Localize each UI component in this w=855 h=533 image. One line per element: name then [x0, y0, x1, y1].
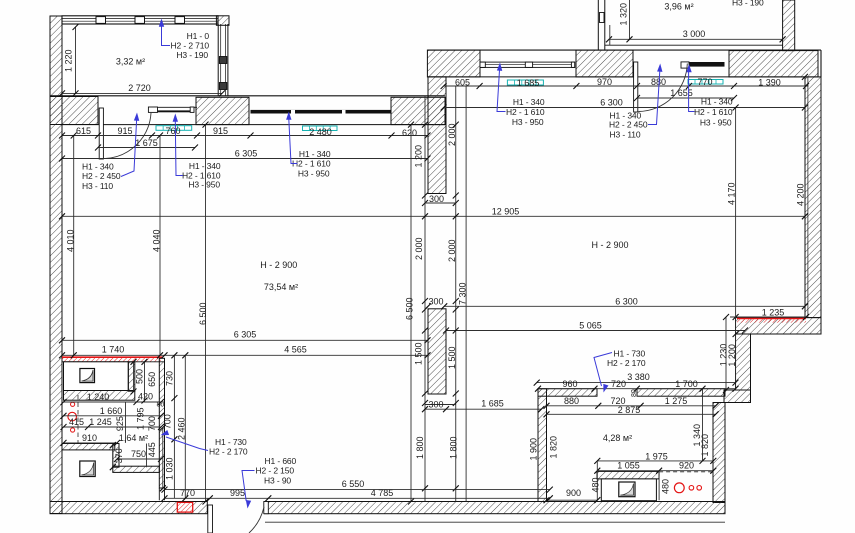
- top wall outer face line: [50, 95, 445, 97]
- svg-text:1 320: 1 320: [619, 3, 629, 26]
- kitchen top wall right segment: [637, 389, 725, 397]
- window 2 480: [251, 110, 392, 114]
- right side vertical dims: [735, 108, 737, 391]
- svg-text:1 235: 1 235: [762, 308, 785, 318]
- svg-text:910: 910: [82, 433, 97, 443]
- svg-text:7 300: 7 300: [457, 282, 467, 305]
- dim 6 305 bottom: [62, 339, 428, 341]
- svg-text:605: 605: [455, 77, 470, 87]
- demolition red strip left: [62, 356, 163, 358]
- svg-text:1 660: 1 660: [100, 406, 123, 416]
- center column dim lines: [424, 96, 426, 502]
- svg-text:415: 415: [69, 417, 84, 427]
- kitchen sink symbol: [619, 482, 635, 497]
- svg-text:700: 700: [163, 414, 173, 429]
- svg-text:1 675: 1 675: [135, 138, 158, 148]
- svg-text:80: 80: [631, 389, 638, 397]
- svg-text:620: 620: [402, 128, 417, 138]
- svg-text:1,64 м²: 1,64 м²: [119, 433, 148, 443]
- balcony 3,32 glazing band: [62, 16, 218, 24]
- svg-text:H2 - 2 450: H2 - 2 450: [82, 171, 121, 181]
- window 1 685: [480, 62, 575, 67]
- balcony 3,96 right wall: [783, 0, 795, 51]
- svg-text:300: 300: [428, 297, 443, 307]
- svg-text:1 200: 1 200: [727, 344, 737, 367]
- svg-text:1 390: 1 390: [758, 77, 781, 87]
- svg-text:925: 925: [115, 416, 125, 431]
- svg-text:1 245: 1 245: [89, 417, 112, 427]
- dim 6 305 top: [62, 158, 428, 160]
- WC bottom wall: [64, 391, 135, 401]
- svg-text:6 300: 6 300: [615, 296, 638, 306]
- svg-text:1 200: 1 200: [414, 145, 424, 168]
- step corner block: [724, 390, 751, 403]
- svg-text:300: 300: [429, 194, 444, 204]
- svg-text:1 500: 1 500: [413, 342, 423, 365]
- dim 1 685 / 300 bottom: [425, 408, 541, 410]
- svg-text:500: 500: [134, 369, 144, 384]
- svg-text:445: 445: [147, 442, 157, 457]
- svg-text:1 795: 1 795: [136, 407, 146, 430]
- svg-text:H2 - 2 450: H2 - 2 450: [609, 120, 648, 130]
- svg-text:3,96 м²: 3,96 м²: [664, 2, 693, 12]
- dim 6 300 lower: [444, 305, 805, 307]
- balcony 3,32 right glazed wall: [217, 24, 219, 96]
- svg-text:1 275: 1 275: [665, 396, 688, 406]
- dim 3 000 balcony: [609, 38, 783, 40]
- svg-text:3 380: 3 380: [627, 372, 650, 382]
- red plumbing risers: [71, 402, 75, 406]
- svg-text:4 565: 4 565: [284, 345, 307, 355]
- entrance door jamb: [264, 502, 269, 514]
- svg-text:2 720: 2 720: [128, 83, 151, 93]
- center wall stub B: [428, 309, 446, 394]
- svg-text:4 785: 4 785: [371, 488, 394, 498]
- top wall block left: [50, 97, 98, 125]
- center wall stub A: [428, 77, 446, 194]
- shaft wall (corridor side): [159, 358, 164, 488]
- teal marker window 760: [156, 126, 192, 131]
- right top wall block C: [729, 51, 818, 77]
- svg-text:H2 - 1 610: H2 - 1 610: [292, 159, 331, 169]
- top wall pier between windows: [196, 97, 249, 124]
- svg-text:H3 - 110: H3 - 110: [610, 130, 641, 140]
- svg-text:1 220: 1 220: [64, 49, 74, 72]
- kitchen left wall: [538, 389, 547, 502]
- svg-text:480: 480: [591, 477, 601, 492]
- svg-text:1 030: 1 030: [165, 457, 175, 480]
- stair landing edge: [265, 521, 725, 523]
- WC vent shaft symbol: [80, 369, 95, 383]
- right top wall block B: [576, 50, 633, 77]
- svg-text:880: 880: [564, 396, 579, 406]
- svg-text:1 740: 1 740: [102, 345, 125, 355]
- kitchen dims top: [537, 382, 736, 384]
- svg-text:1 900: 1 900: [529, 438, 539, 461]
- svg-text:1 685: 1 685: [517, 78, 540, 88]
- svg-text:6 305: 6 305: [234, 330, 257, 340]
- entrance red marker box: [177, 502, 192, 512]
- svg-text:H2 - 1 610: H2 - 1 610: [694, 107, 733, 117]
- svg-text:2 000: 2 000: [447, 123, 457, 146]
- dim 300 stubs: [425, 202, 456, 204]
- left room vertical dims 4 010 / 4 040 / 6 500: [73, 136, 75, 356]
- kitchen stove (dashed): [659, 471, 713, 473]
- svg-text:H2 - 2 710: H2 - 2 710: [171, 41, 210, 51]
- svg-text:900: 900: [566, 488, 581, 498]
- balcony 3,32 floor edge: [62, 92, 222, 94]
- svg-text:370: 370: [114, 448, 124, 463]
- svg-text:730: 730: [164, 371, 174, 386]
- bottom outer wall left of door: [50, 502, 207, 514]
- dim 1 675: [98, 147, 195, 149]
- dim 6 300 top: [444, 107, 805, 109]
- svg-text:2 000: 2 000: [414, 237, 424, 260]
- bottom outer wall right of door: [265, 502, 726, 514]
- balcony 3,96 floor edge: [605, 44, 783, 46]
- svg-text:4,28 м²: 4,28 м²: [603, 433, 632, 443]
- svg-text:6 500: 6 500: [405, 297, 415, 320]
- svg-text:6 550: 6 550: [342, 479, 365, 489]
- svg-text:6 500: 6 500: [198, 302, 208, 325]
- dim 1 655: [637, 97, 734, 99]
- svg-text:73,54 м²: 73,54 м²: [264, 282, 298, 292]
- svg-text:760: 760: [165, 126, 180, 136]
- svg-text:2 875: 2 875: [618, 405, 641, 415]
- dim 1 740 / 4 565: [62, 354, 428, 356]
- kitchen counter sink unit: [597, 471, 659, 479]
- svg-text:915: 915: [117, 126, 132, 136]
- dim 5 065: [446, 330, 745, 332]
- svg-text:6 300: 6 300: [600, 98, 623, 108]
- dim row 615/915/760/915/2480/620: [62, 135, 428, 137]
- svg-text:12 905: 12 905: [492, 206, 520, 216]
- svg-text:1 340: 1 340: [692, 424, 702, 447]
- top wall inner face line: [62, 124, 445, 126]
- dashed partition line in bathroom: [77, 395, 79, 443]
- svg-text:H3 - 950: H3 - 950: [700, 118, 732, 128]
- svg-text:H1 - 0: H1 - 0: [187, 31, 210, 41]
- right step wall horizontal: [736, 318, 822, 334]
- svg-text:1 500: 1 500: [447, 346, 457, 369]
- svg-text:1 240: 1 240: [87, 392, 110, 402]
- top wall corner block: [391, 97, 445, 124]
- balcony corner pier: [216, 16, 229, 25]
- svg-text:2 460: 2 460: [176, 417, 186, 440]
- svg-text:6 305: 6 305: [235, 149, 258, 159]
- svg-text:2 480: 2 480: [309, 127, 332, 137]
- svg-text:300: 300: [428, 400, 443, 410]
- svg-text:H1 - 340: H1 - 340: [299, 149, 331, 159]
- kitchen dims bottom: [597, 460, 713, 462]
- svg-text:4 040: 4 040: [152, 229, 162, 252]
- svg-text:970: 970: [597, 77, 612, 87]
- right top wall outer face: [427, 49, 821, 51]
- svg-text:650: 650: [147, 372, 157, 387]
- outer right wall: [805, 77, 821, 318]
- bath partition step: [113, 444, 119, 468]
- svg-text:3 000: 3 000: [683, 29, 706, 39]
- svg-text:1 820: 1 820: [549, 436, 559, 459]
- right top wall block A: [427, 50, 480, 77]
- svg-text:H2 - 2 150: H2 - 2 150: [256, 465, 295, 475]
- bath partition wall: [62, 444, 115, 450]
- kitchen right wall: [713, 403, 725, 503]
- svg-text:H3 - 950: H3 - 950: [188, 180, 220, 190]
- bathroom vent shaft symbol: [80, 461, 95, 477]
- svg-text:1 655: 1 655: [670, 88, 693, 98]
- svg-text:H - 2 900: H - 2 900: [260, 260, 297, 270]
- svg-text:H2 - 2 170: H2 - 2 170: [607, 358, 646, 368]
- niche bottom wall: [113, 466, 160, 472]
- outer left wall: [50, 16, 62, 514]
- dim 12 905: [62, 215, 805, 217]
- svg-text:960: 960: [562, 379, 577, 389]
- svg-text:1 975: 1 975: [645, 451, 668, 461]
- svg-text:H3 - 90: H3 - 90: [264, 475, 291, 485]
- WC right wall: [128, 362, 135, 391]
- svg-text:H1 - 340: H1 - 340: [513, 97, 545, 107]
- svg-text:H2 - 1 610: H2 - 1 610: [506, 107, 545, 117]
- svg-text:H3 - 190: H3 - 190: [732, 0, 764, 8]
- dim row 605/1685/970/880/770/1390: [444, 85, 809, 87]
- dim 1 235: [730, 316, 806, 318]
- svg-text:770: 770: [697, 77, 712, 87]
- svg-text:1 800: 1 800: [449, 436, 459, 459]
- svg-text:920: 920: [679, 461, 694, 471]
- svg-text:H3 - 950: H3 - 950: [298, 169, 330, 179]
- corridor dims 6 550 / 770 / 995 / 4 785: [165, 489, 550, 491]
- balcony door leaf + swing: [99, 108, 103, 159]
- teal marker window 770: [688, 80, 723, 85]
- svg-text:995: 995: [230, 488, 245, 498]
- kitchen top wall left segment: [538, 389, 597, 397]
- right step wall vertical: [736, 334, 751, 390]
- svg-text:915: 915: [213, 126, 228, 136]
- svg-text:H1 - 340: H1 - 340: [701, 97, 733, 107]
- svg-text:H1 - 730: H1 - 730: [215, 437, 247, 447]
- teal marker window 1685: [507, 80, 543, 85]
- svg-text:H3 - 190: H3 - 190: [176, 50, 208, 60]
- right balcony door leaf + swing: [634, 62, 638, 112]
- svg-text:4 200: 4 200: [796, 183, 806, 206]
- svg-text:615: 615: [76, 126, 91, 136]
- right top wall inner face: [427, 76, 805, 78]
- entrance door leaf + swing: [208, 505, 213, 533]
- svg-text:1 700: 1 700: [675, 379, 698, 389]
- svg-text:4 170: 4 170: [726, 182, 736, 205]
- svg-text:700: 700: [147, 416, 157, 431]
- svg-text:H1 - 660: H1 - 660: [265, 456, 297, 466]
- teal marker window 2480: [303, 126, 338, 131]
- WC room: [64, 362, 129, 391]
- demolition red line right: [737, 318, 806, 320]
- dim 2 720 balcony: [59, 90, 65, 96]
- bathroom vertical dims: [133, 362, 135, 392]
- dim 1 220 line: [75, 27, 77, 93]
- svg-text:H1 - 340: H1 - 340: [82, 162, 114, 172]
- svg-text:1 685: 1 685: [481, 399, 504, 409]
- svg-text:H3 - 950: H3 - 950: [512, 117, 544, 127]
- svg-text:3,32 м²: 3,32 м²: [116, 57, 145, 67]
- svg-text:H2 - 2 170: H2 - 2 170: [209, 447, 248, 457]
- svg-text:4 010: 4 010: [66, 229, 76, 252]
- svg-text:2 000: 2 000: [447, 239, 457, 262]
- svg-text:750: 750: [131, 449, 146, 459]
- svg-text:1 055: 1 055: [617, 461, 640, 471]
- svg-text:5 065: 5 065: [579, 321, 602, 331]
- svg-text:720: 720: [611, 379, 626, 389]
- balcony 3,96 left wall: [597, 0, 599, 50]
- window 760: [152, 106, 197, 108]
- svg-text:480: 480: [661, 479, 671, 494]
- svg-text:1 800: 1 800: [415, 436, 425, 459]
- dim 1 320 line: [629, 0, 631, 39]
- svg-text:H3 - 110: H3 - 110: [82, 181, 113, 191]
- window 770: [681, 62, 689, 68]
- svg-text:H - 2 900: H - 2 900: [591, 240, 628, 250]
- bathroom dims: [64, 401, 162, 403]
- svg-text:80: 80: [157, 402, 165, 409]
